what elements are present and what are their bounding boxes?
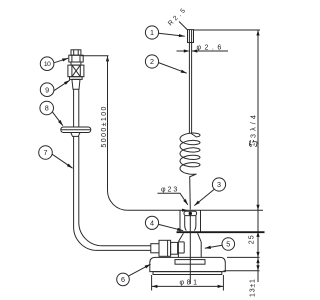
connector plug tip [71, 50, 81, 55]
balloon 10 [40, 57, 68, 71]
right extension line at dome bottom [224, 270, 260, 272]
connector band [70, 77, 83, 80]
whip rod (item 2) [189, 43, 191, 134]
bottom pad [153, 272, 222, 275]
dimension phi 2.6 [177, 44, 229, 52]
svg-text:9: 9 [45, 85, 49, 94]
base top line with 5000-dim arrow [127, 209, 263, 212]
dimension 5000+-100 (cable length) [81, 56, 127, 211]
connector ring [71, 62, 81, 65]
rod lower end into base [189, 177, 192, 210]
svg-text:4: 4 [150, 218, 154, 227]
jack nut on housing (item 5 target) [178, 242, 184, 253]
svg-text:2: 2 [150, 57, 154, 66]
svg-text:3: 3 [217, 180, 221, 189]
terminal dot [189, 212, 192, 215]
top extension line [194, 29, 261, 31]
balloon 7 [39, 146, 73, 169]
balloon 2 [145, 55, 186, 73]
svg-text:8: 8 [45, 104, 49, 113]
svg-text:5000±100: 5000±100 [101, 105, 108, 147]
connector strain taper [72, 79, 80, 89]
cable upper section [74, 89, 79, 127]
svg-text:φ81: φ81 [180, 279, 200, 286]
plug neck [171, 242, 178, 254]
insulator cylinder (item 3 target) [185, 216, 196, 231]
svg-text:7: 7 [44, 148, 48, 157]
svg-text:13±1: 13±1 [250, 278, 257, 297]
dome base (item 6) [150, 257, 226, 271]
insulator cap [184, 211, 197, 215]
cable end ferrule [151, 244, 159, 253]
svg-text:3λ/4: 3λ/4 [248, 112, 257, 138]
center line [189, 215, 191, 284]
balloon 5 [205, 238, 235, 251]
spring coil [180, 133, 200, 177]
balloon 3 [194, 178, 225, 206]
svg-text:φ23: φ23 [161, 187, 179, 194]
cone flare (item 4 target) [179, 233, 201, 242]
balloon 6 [117, 264, 151, 286]
svg-text:1: 1 [150, 28, 154, 37]
connector nut (item 10) [69, 55, 83, 62]
label R2.5 [167, 6, 189, 30]
label phi 23 [158, 187, 188, 205]
svg-text:10: 10 [44, 61, 51, 68]
whip tip cap (item 1) [188, 30, 194, 43]
collar thick line [177, 231, 265, 233]
ferrite disc (item 8) [61, 127, 91, 133]
svg-text:5: 5 [226, 240, 230, 249]
cable plug body [159, 240, 171, 256]
balloon 1 [145, 26, 184, 39]
base housing upper box [180, 210, 201, 231]
connector body with cross knurl (item 9) [68, 65, 84, 77]
right extension line at dome top [227, 256, 260, 258]
balloon 9 [40, 80, 70, 96]
cable (item 7) with bend to base [74, 136, 151, 250]
right dimension line (3 lambda /4, 25, 13+-1) [256, 30, 259, 282]
svg-text:25: 25 [249, 234, 256, 244]
svg-text:6: 6 [121, 275, 125, 284]
balloon 4 [145, 216, 183, 231]
label approx 3 lambda/4 (kanji yaku drawn as strokes) [248, 112, 257, 147]
dimension phi 81 [152, 275, 224, 291]
dome slot [175, 260, 205, 265]
base lower block sides [178, 242, 201, 258]
svg-text:φ2.6: φ2.6 [197, 44, 225, 51]
disc neck [71, 133, 80, 137]
balloon 8 [40, 101, 63, 126]
